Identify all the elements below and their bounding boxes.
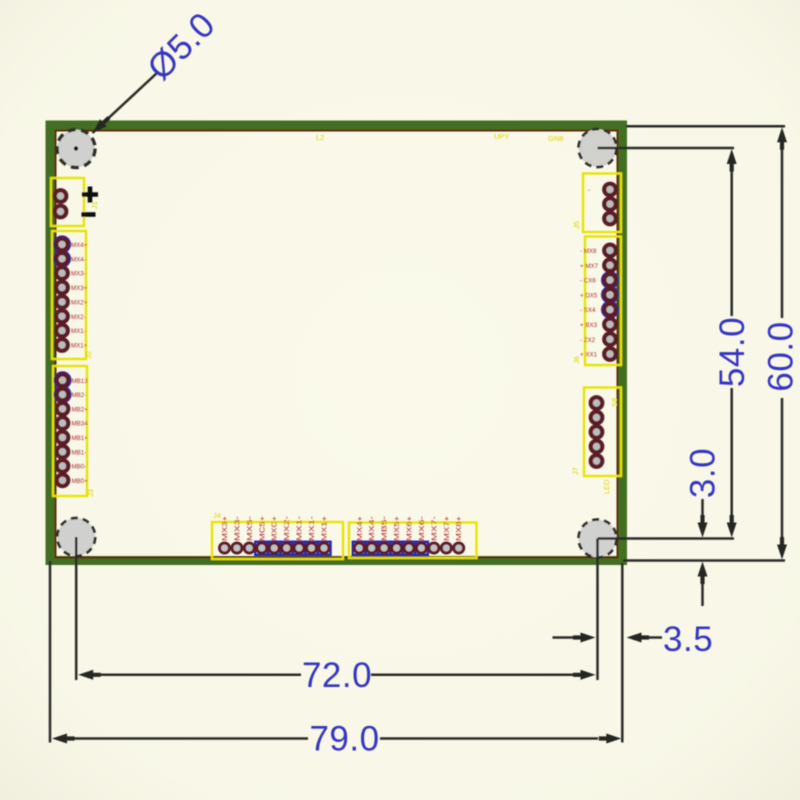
J5 pin 3 <box>604 213 616 225</box>
dimension leader D5.0 <box>89 5 223 137</box>
J3 outline <box>53 366 87 496</box>
dimension 3.0 <box>684 448 723 606</box>
extension line 79 right (board right edge) <box>621 563 624 743</box>
extension line 72 right (from BR hole) <box>596 539 599 681</box>
mounting hole BR <box>579 520 617 558</box>
dimension 60.0 <box>762 127 800 559</box>
J2 pin 1 <box>56 239 68 251</box>
J3 pin 2 <box>57 389 69 401</box>
connector J5 (3-pin top right) <box>572 174 621 233</box>
J4a pin 9 <box>319 543 329 553</box>
dimension 54.0 <box>713 149 752 538</box>
connector J6 (8-pin right) <box>572 237 621 366</box>
J7 pin 2 <box>591 412 603 424</box>
J2 pin 7 <box>56 325 68 337</box>
J2 pin 2 <box>56 253 68 265</box>
J4b pin 1 <box>354 543 364 553</box>
J5 outline <box>583 174 621 233</box>
J4a pin 7 <box>294 543 304 553</box>
J7 pin 3 <box>591 426 603 438</box>
extension line 60 bottom (board bottom edge) <box>623 559 785 562</box>
J6 pin 3 <box>604 274 616 286</box>
J3 pin 4 <box>57 417 69 429</box>
J4b pin 3 <box>379 543 389 553</box>
J7 pin 5 <box>591 455 603 467</box>
board outline (green PCB edge) <box>50 125 623 561</box>
plus symbol <box>82 187 98 203</box>
J4b pin 8 <box>441 543 451 553</box>
J3 pin 8 <box>57 475 69 487</box>
dimension 3.5 <box>553 620 714 659</box>
J7 pin 4 <box>591 441 603 453</box>
connector J4a (9-pin bottom left) <box>212 511 343 559</box>
silk text top edge <box>316 132 563 143</box>
mounting hole TL <box>57 130 95 168</box>
extension line 54 top (from TR hole) <box>598 147 735 150</box>
J6 pin 7 <box>604 333 616 345</box>
J4a pin 6 <box>282 543 292 553</box>
leader arrowhead <box>89 114 112 137</box>
J2 pin 4 <box>56 282 68 294</box>
J2 pin 5 <box>56 296 68 308</box>
J2 pin 8 <box>56 339 68 351</box>
J4b pin 5 <box>404 543 414 553</box>
J3 pin 1 <box>57 374 69 386</box>
J5 pin 1 <box>604 184 616 196</box>
J2 pin 3 <box>56 267 68 279</box>
J1 pin 2 <box>55 206 67 218</box>
J6 pin 4 <box>604 289 616 301</box>
J4b pin 9 <box>454 543 464 553</box>
J6 pin 1 <box>604 245 616 257</box>
dimension 72.0 <box>78 656 595 695</box>
extension line 54 bottom (from BR hole) <box>598 537 735 540</box>
J6 pin 5 <box>604 304 616 316</box>
J3 pin 5 <box>57 432 69 444</box>
mounting hole TR <box>579 129 617 167</box>
J4b pin 7 <box>429 543 439 553</box>
J6 pin 8 <box>604 348 616 360</box>
dimension 79.0 <box>52 720 621 759</box>
J4b pin 4 <box>392 543 402 553</box>
J4a pin 5 <box>269 543 279 553</box>
J4a outline <box>212 522 343 559</box>
mounting hole BL <box>57 518 95 556</box>
J5 pin 2 <box>604 198 616 210</box>
connector J4b (9-pin bottom right) <box>349 515 477 558</box>
connector J1 (power +/-) <box>51 178 99 226</box>
J4a pin 4 <box>257 543 267 553</box>
J4a pin 2 <box>232 543 242 553</box>
J2 outline <box>52 231 86 359</box>
minus symbol <box>82 212 96 217</box>
connector J2 (8-pin left) <box>52 231 93 359</box>
connector J7 (5-pin right lower) <box>571 388 621 495</box>
extension line 60 top (board top edge) <box>626 125 785 128</box>
J6 pin 2 <box>604 259 616 271</box>
J4a pin 3 <box>244 543 254 553</box>
J4a pin 8 <box>307 543 317 553</box>
extension line 72 left (from BL hole) <box>75 537 78 680</box>
J2 pin 6 <box>56 311 68 323</box>
extension line 79 left (board left edge) <box>49 561 52 743</box>
J4a pin 1 <box>220 543 230 553</box>
J3 pin 6 <box>57 446 69 458</box>
J3 pin 7 <box>57 460 69 472</box>
J4b outline <box>349 523 477 559</box>
J6 outline <box>585 237 621 366</box>
J1 pin 1 <box>55 190 67 202</box>
J7 outline <box>584 388 621 477</box>
connector J3 (8-pin left lower) <box>53 366 95 497</box>
J6 pin 6 <box>604 319 616 331</box>
keepout line (brown inner rect) <box>56 131 618 558</box>
J4b pin 2 <box>367 543 377 553</box>
J1 outline <box>51 178 84 226</box>
J3 pin 3 <box>57 403 69 415</box>
J7 pin 1 <box>591 397 603 409</box>
J4b pin 6 <box>416 543 426 553</box>
